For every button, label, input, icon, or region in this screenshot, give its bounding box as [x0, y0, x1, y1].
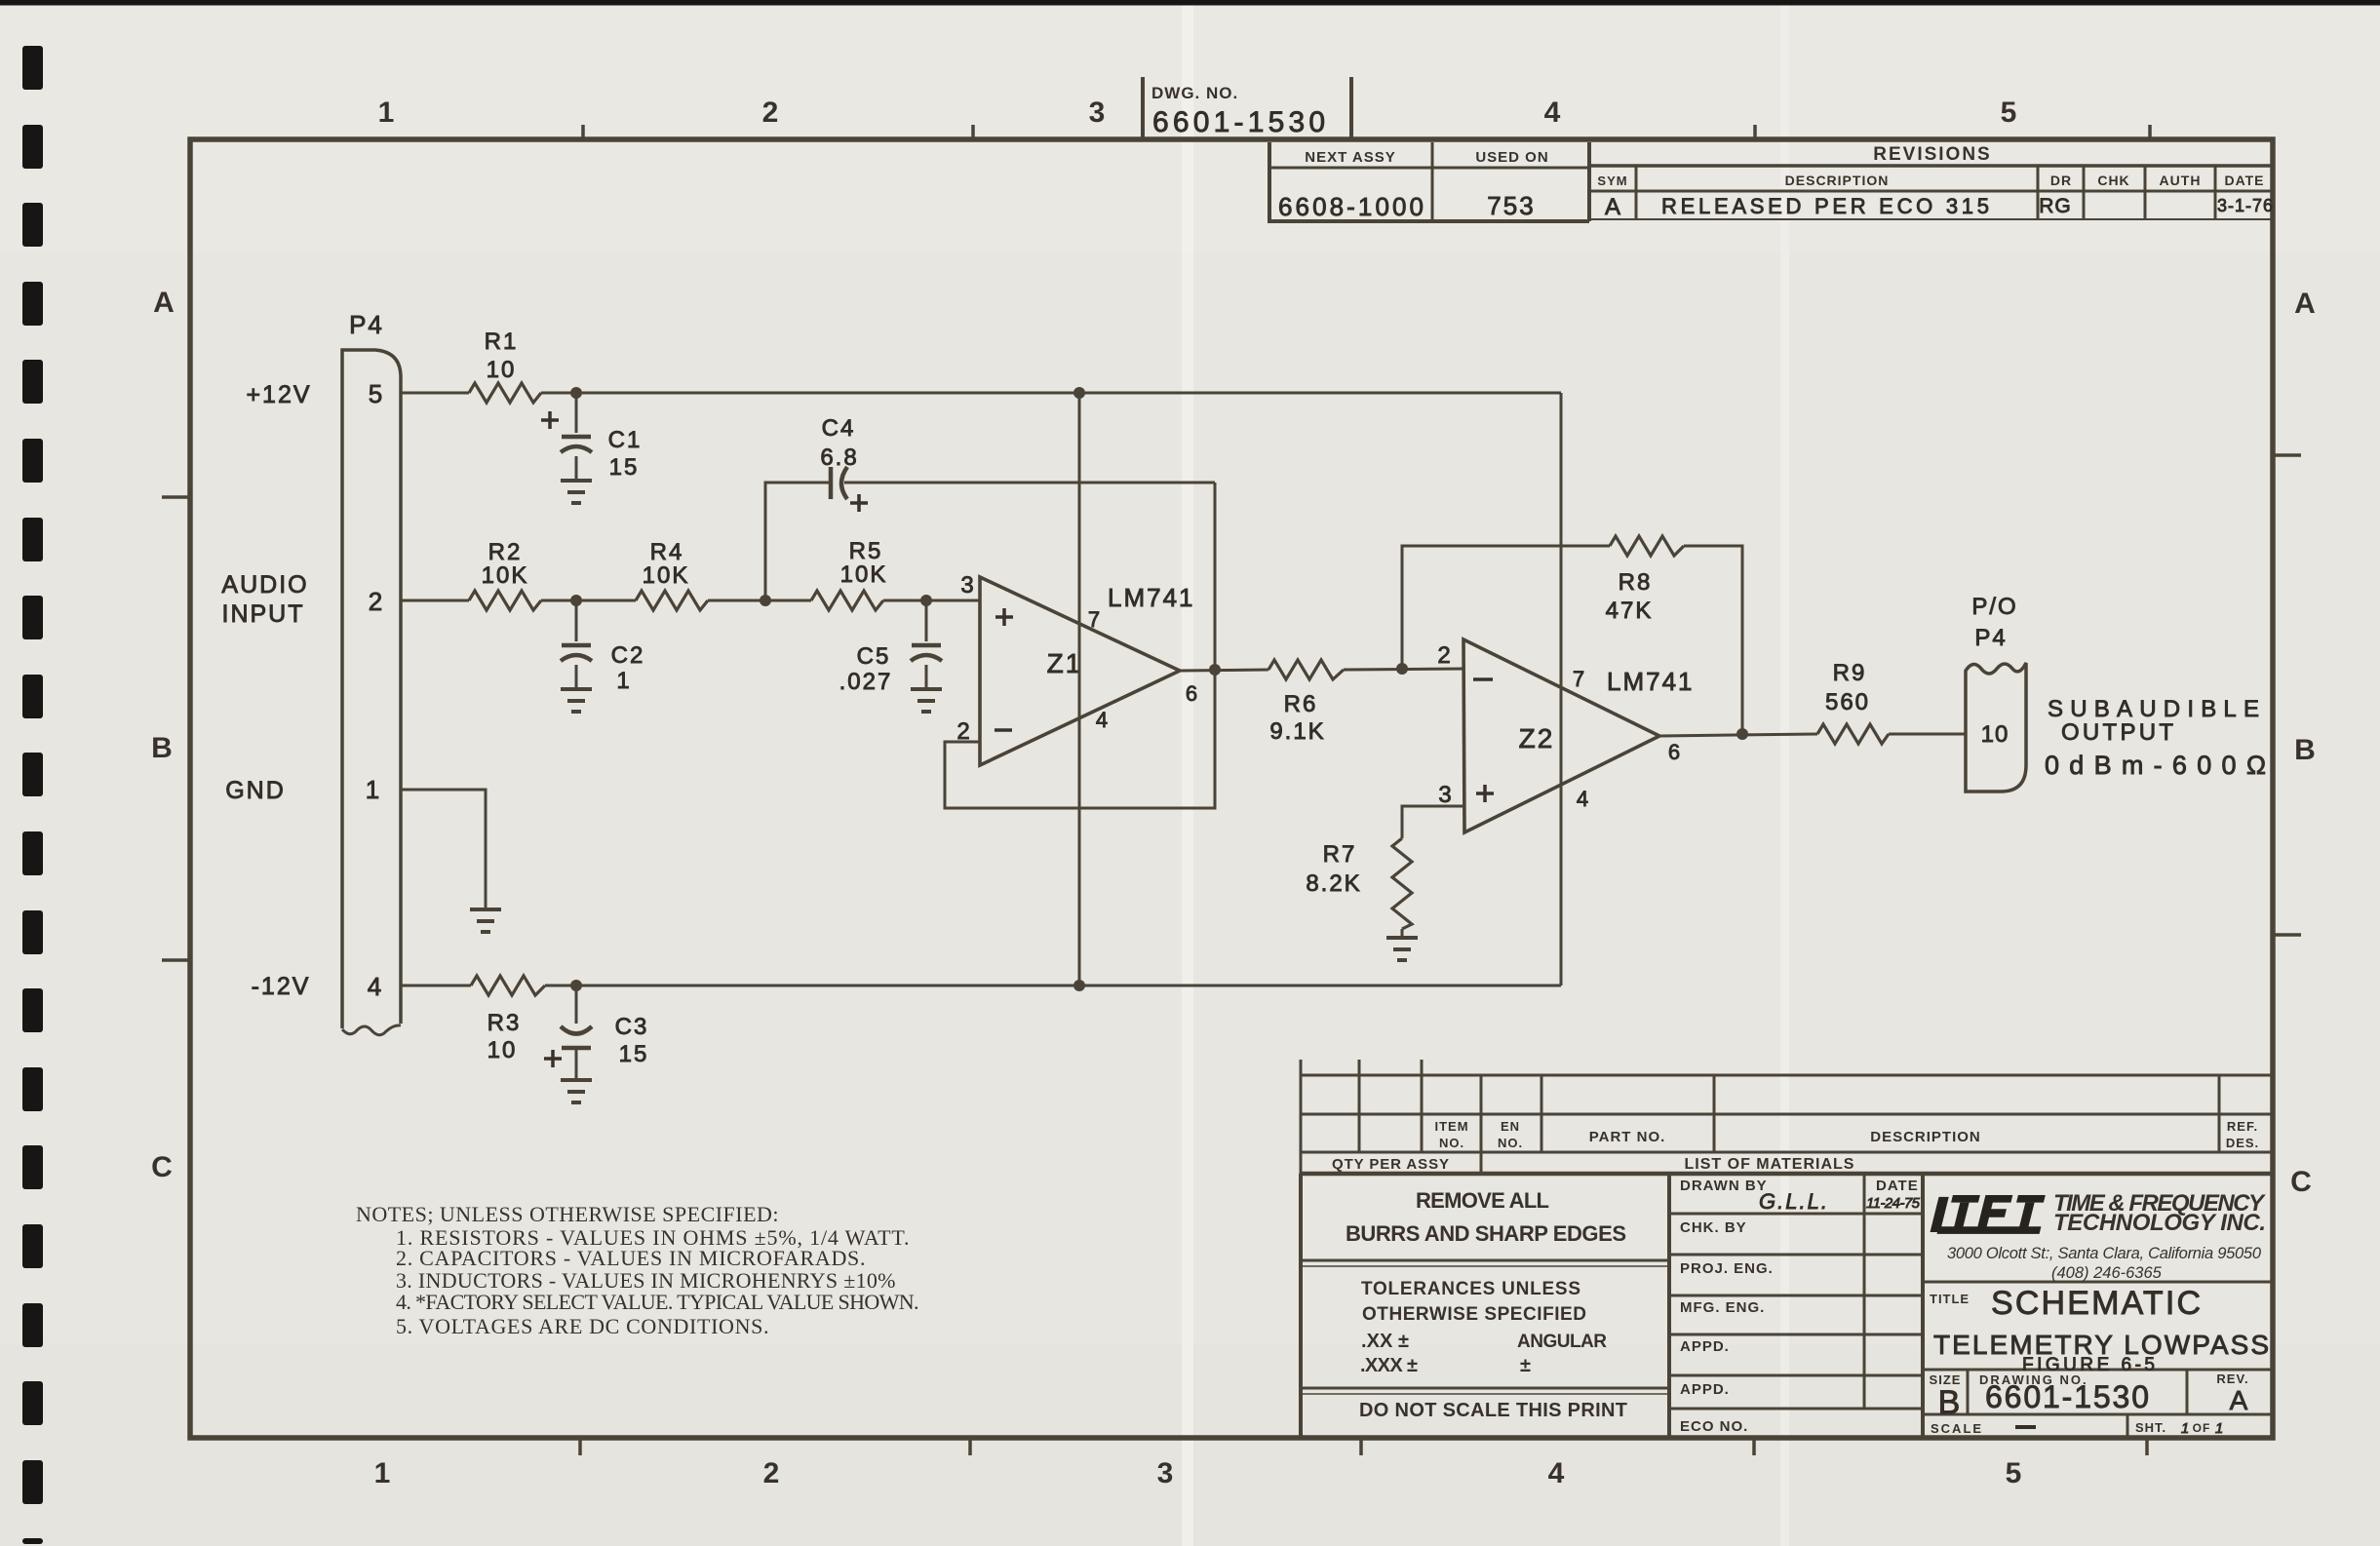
svg-text:4: 4 — [1548, 1457, 1565, 1489]
binder holes (left edge) — [22, 46, 43, 1544]
svg-text:4: 4 — [1096, 708, 1108, 732]
svg-text:753: 753 — [1487, 191, 1535, 220]
node +12V / C1 junction — [570, 387, 582, 399]
svg-text:DWG. NO.: DWG. NO. — [1151, 84, 1238, 102]
svg-text:Z1: Z1 — [1047, 648, 1083, 678]
svg-text:A: A — [1605, 194, 1620, 220]
svg-text:USED ON: USED ON — [1475, 149, 1548, 166]
svg-text:11-24-75: 11-24-75 — [1866, 1195, 1921, 1212]
svg-text:+12V: +12V — [246, 381, 311, 408]
DWG. NO. box — [1141, 77, 1145, 139]
svg-text:TECHNOLOGY INC.: TECHNOLOGY INC. — [2053, 1210, 2266, 1236]
svg-text:4: 4 — [1544, 97, 1561, 129]
svg-text:5: 5 — [369, 379, 382, 408]
svg-text:NOTES; UNLESS OTHERWISE SPECI: NOTES; UNLESS OTHERWISE SPECIFIED: — [356, 1202, 779, 1226]
wire supply right vertical — [1560, 393, 1563, 986]
svg-text:8.2K: 8.2K — [1306, 870, 1361, 897]
svg-text:DESCRIPTION: DESCRIPTION — [1785, 173, 1890, 188]
svg-text:C1: C1 — [608, 427, 643, 453]
svg-text:LM741: LM741 — [1108, 583, 1195, 612]
svg-text:C2: C2 — [611, 642, 645, 669]
resistor R1 — [469, 383, 541, 403]
wire audio input chain — [401, 599, 469, 602]
capacitor C3 — [575, 986, 578, 1024]
svg-text:4: 4 — [1577, 787, 1588, 811]
ground (pin 1) — [470, 908, 501, 911]
svg-text:SCALE: SCALE — [1931, 1421, 1983, 1436]
zone ticks top border — [581, 125, 585, 139]
svg-text:C4: C4 — [822, 415, 856, 442]
node Z1 output junction — [1209, 664, 1221, 676]
svg-text:MFG. ENG.: MFG. ENG. — [1680, 1299, 1765, 1316]
svg-text:.027: .027 — [839, 669, 893, 695]
scanner edge black strip (top) — [0, 0, 2380, 6]
svg-text:BURRS AND SHARP EDGES: BURRS AND SHARP EDGES — [1346, 1221, 1627, 1246]
svg-text:AUDIO: AUDIO — [221, 571, 308, 599]
node R4 / R5 / C4 junction — [760, 595, 771, 606]
drawing border frame — [190, 139, 2273, 1438]
svg-text:3-1-76: 3-1-76 — [2217, 196, 2274, 215]
svg-text:3: 3 — [1089, 97, 1106, 129]
svg-text:R6: R6 — [1284, 691, 1318, 717]
svg-text:SUBAUDIBLE: SUBAUDIBLE — [2048, 696, 2262, 722]
wire Z1 supply vertical — [1078, 393, 1081, 986]
ground (R7) — [1386, 936, 1418, 940]
svg-text:A: A — [2230, 1385, 2248, 1415]
svg-text:10: 10 — [487, 357, 517, 383]
Z2 + input symbol — [1476, 792, 1494, 795]
svg-text:P4: P4 — [349, 310, 384, 339]
svg-text:NO.: NO. — [1439, 1136, 1464, 1150]
svg-text:2: 2 — [763, 1457, 780, 1489]
svg-text:-12V: -12V — [252, 973, 311, 1000]
svg-text:SYM: SYM — [1597, 174, 1627, 188]
svg-text:DES.: DES. — [2226, 1136, 2259, 1150]
Z1 - input symbol — [995, 728, 1012, 732]
ground (C3) — [561, 1078, 592, 1082]
svg-text:LIST OF MATERIALS: LIST OF MATERIALS — [1685, 1156, 1855, 1173]
svg-text:APPD.: APPD. — [1680, 1381, 1730, 1398]
svg-text:1: 1 — [374, 1457, 391, 1489]
connector P/O P4 (output) — [1966, 663, 2026, 792]
wire Z1 feedback loop to pin 2 — [945, 483, 1215, 808]
Z1 + input symbol — [995, 615, 1013, 619]
svg-text:REV.: REV. — [2216, 1372, 2248, 1386]
svg-text:A: A — [2294, 288, 2316, 320]
svg-text:A: A — [153, 287, 175, 319]
wire Z1 output — [1180, 670, 1268, 671]
title block grid — [1301, 1174, 2273, 1438]
svg-text:1: 1 — [2181, 1420, 2189, 1437]
svg-text:1: 1 — [2215, 1420, 2223, 1437]
svg-text:AUTH: AUTH — [2160, 173, 2202, 188]
node R6 / R8 junction — [1396, 663, 1408, 675]
svg-text:5: 5 — [2001, 97, 2017, 129]
svg-text:GND: GND — [225, 777, 286, 804]
svg-text:R2: R2 — [488, 539, 523, 565]
svg-text:6601-1530: 6601-1530 — [1985, 1379, 2153, 1414]
svg-text:DRAWN BY: DRAWN BY — [1680, 1178, 1768, 1194]
svg-text:7: 7 — [1088, 607, 1100, 632]
resistor R2 — [469, 591, 541, 610]
svg-text:3: 3 — [1438, 782, 1451, 808]
capacitor C2 — [575, 600, 578, 641]
resistor R8 — [1610, 536, 1684, 556]
svg-text:NO.: NO. — [1498, 1136, 1523, 1150]
svg-text:SHT.: SHT. — [2135, 1420, 2166, 1435]
wire -12V rail — [401, 985, 471, 987]
svg-text:6608-1000: 6608-1000 — [1278, 192, 1424, 221]
svg-text:2. CAPACITORS - VALUES IN MIC: 2. CAPACITORS - VALUES IN MICROFARADS. — [396, 1246, 866, 1270]
svg-text:CHK: CHK — [2097, 173, 2129, 188]
svg-text:R5: R5 — [849, 538, 883, 564]
resistor R4 — [636, 591, 708, 610]
svg-text:2: 2 — [369, 587, 382, 616]
svg-text:6601-1530: 6601-1530 — [1152, 106, 1328, 138]
wire R8 to output — [1684, 546, 1742, 734]
capacitor C1 — [575, 393, 578, 433]
svg-text:DATE: DATE — [2224, 173, 2264, 188]
svg-text:1: 1 — [366, 775, 379, 804]
ground (C5) — [911, 687, 942, 691]
svg-text:10: 10 — [1981, 721, 2009, 748]
svg-text:PART NO.: PART NO. — [1589, 1129, 1666, 1145]
wire R6 to Z2 pin 2 — [1344, 669, 1464, 670]
svg-text:NEXT ASSY: NEXT ASSY — [1305, 149, 1395, 166]
svg-text:±: ± — [1520, 1355, 1532, 1376]
svg-text:INPUT: INPUT — [222, 600, 305, 628]
svg-text:4. *FACTORY SELECT VALUE. TY: 4. *FACTORY SELECT VALUE. TYPICAL VALUE … — [396, 1290, 919, 1314]
svg-text:R3: R3 — [488, 1010, 522, 1036]
svg-text:6: 6 — [1668, 740, 1680, 764]
svg-text:9.1K: 9.1K — [1269, 718, 1325, 745]
svg-text:1: 1 — [378, 97, 395, 129]
svg-text:10: 10 — [488, 1037, 518, 1063]
capacitor C4 — [829, 467, 834, 499]
node -12V / Z1 supply junction — [1073, 980, 1085, 991]
svg-text:TOLERANCES UNLESS: TOLERANCES UNLESS — [1361, 1279, 1582, 1299]
node R5 / C5 / pin3 junction — [920, 595, 932, 606]
svg-text:C: C — [2290, 1166, 2312, 1198]
svg-text:B: B — [1938, 1384, 1961, 1421]
svg-text:DATE: DATE — [1876, 1178, 1919, 1194]
svg-text:7: 7 — [1573, 667, 1584, 691]
ground (C2) — [561, 687, 592, 691]
wire R8 branch — [1402, 546, 1610, 669]
svg-text:2: 2 — [1437, 642, 1450, 669]
notes block — [356, 1202, 919, 1338]
svg-text:47K: 47K — [1606, 598, 1654, 624]
svg-text:REMOVE ALL: REMOVE ALL — [1416, 1188, 1550, 1213]
svg-text:REVISIONS: REVISIONS — [1873, 144, 1991, 165]
svg-text:OUTPUT: OUTPUT — [2061, 719, 2176, 746]
wire +12V rail — [401, 392, 469, 395]
svg-text:10K: 10K — [482, 562, 529, 589]
svg-text:Z2: Z2 — [1519, 723, 1555, 754]
svg-text:B: B — [2294, 734, 2316, 766]
svg-text:C: C — [151, 1151, 173, 1183]
svg-text:OF: OF — [2193, 1421, 2211, 1435]
svg-text:P/O: P/O — [1971, 594, 2017, 620]
zone ticks left border — [162, 495, 188, 499]
resistor R7 — [1392, 838, 1412, 929]
svg-text:LM741: LM741 — [1607, 667, 1695, 696]
REVISIONS table — [1589, 142, 2275, 221]
svg-text:.XX ±: .XX ± — [1361, 1331, 1410, 1352]
svg-text:R1: R1 — [485, 329, 519, 355]
svg-text:6.8: 6.8 — [820, 444, 858, 471]
node -12V / C3 junction — [570, 980, 582, 991]
node output / R8 junction — [1736, 728, 1748, 740]
svg-text:.XXX ±: .XXX ± — [1360, 1355, 1419, 1376]
svg-text:R9: R9 — [1833, 660, 1867, 686]
wire Z2 pin 3 to R7 — [1402, 806, 1464, 838]
svg-text:DR: DR — [2050, 173, 2072, 188]
resistor R3 — [471, 976, 545, 995]
op-amp Z2 (LM741) — [1463, 639, 1659, 832]
svg-text:PROJ. ENG.: PROJ. ENG. — [1680, 1260, 1774, 1277]
resistor R6 — [1268, 660, 1344, 679]
connector P4 (input) — [342, 350, 401, 1028]
svg-text:5: 5 — [2006, 1457, 2022, 1489]
svg-text:G.L.L.: G.L.L. — [1759, 1189, 1829, 1214]
svg-text:3: 3 — [1157, 1457, 1174, 1489]
svg-text:4: 4 — [368, 972, 381, 1001]
svg-text:6: 6 — [1186, 681, 1197, 706]
wire C4 feedback riser — [765, 483, 831, 600]
svg-text:R8: R8 — [1619, 569, 1653, 596]
svg-text:RELEASED PER ECO 315: RELEASED PER ECO 315 — [1661, 194, 1991, 218]
wire Z2 output — [1659, 734, 1817, 736]
svg-text:B: B — [151, 732, 173, 764]
svg-text:CHK. BY: CHK. BY — [1680, 1219, 1747, 1236]
Z2 - input symbol — [1473, 677, 1493, 681]
svg-text:R7: R7 — [1323, 841, 1357, 868]
capacitor C5 — [925, 600, 928, 641]
svg-text:P4: P4 — [1974, 625, 2007, 651]
svg-text:15: 15 — [609, 454, 640, 481]
resistor R5 — [811, 591, 883, 610]
resistor R9 — [1817, 724, 1889, 744]
svg-text:15: 15 — [619, 1041, 649, 1067]
zone ticks bottom border — [578, 1440, 582, 1455]
ground (C1) — [561, 479, 592, 483]
svg-text:ANGULAR: ANGULAR — [1517, 1332, 1610, 1352]
svg-text:ITEM: ITEM — [1434, 1119, 1468, 1134]
svg-text:0dBm-600Ω: 0dBm-600Ω — [2045, 751, 2268, 780]
svg-text:560: 560 — [1825, 689, 1870, 715]
svg-text:DESCRIPTION: DESCRIPTION — [1870, 1129, 1981, 1145]
wire GND pin 1 — [401, 790, 486, 909]
svg-text:3000 Olcott St:, Santa Clara,: 3000 Olcott St:, Santa Clara, California… — [1947, 1245, 2262, 1262]
svg-text:2: 2 — [762, 97, 779, 129]
svg-text:(408) 246-6365: (408) 246-6365 — [2051, 1264, 2163, 1282]
node R2 / C2 junction — [570, 595, 582, 606]
svg-text:10K: 10K — [840, 561, 888, 588]
zone ticks right border — [2275, 453, 2301, 457]
svg-text:3: 3 — [960, 572, 973, 599]
svg-text:C5: C5 — [857, 643, 891, 670]
svg-text:R4: R4 — [650, 539, 684, 565]
svg-text:ECO NO.: ECO NO. — [1680, 1418, 1748, 1435]
svg-text:DO NOT SCALE THIS PRINT: DO NOT SCALE THIS PRINT — [1359, 1400, 1629, 1421]
svg-text:C3: C3 — [615, 1014, 649, 1040]
svg-text:REF.: REF. — [2227, 1119, 2258, 1134]
TFT company logo — [1930, 1195, 2048, 1234]
op-amp Z1 (LM741) — [980, 577, 1180, 765]
svg-text:1: 1 — [616, 668, 631, 694]
list of materials table — [1301, 1060, 2273, 1174]
node +12V / Z1 supply junction — [1073, 387, 1085, 399]
svg-text:RG: RG — [2039, 195, 2072, 217]
svg-text:10K: 10K — [643, 562, 690, 589]
svg-text:OTHERWISE SPECIFIED: OTHERWISE SPECIFIED — [1362, 1304, 1588, 1325]
svg-text:QTY PER ASSY: QTY PER ASSY — [1332, 1156, 1450, 1173]
svg-text:SCHEMATIC: SCHEMATIC — [1991, 1285, 2205, 1322]
NEXT ASSY / USED ON table — [1269, 142, 1589, 221]
svg-text:APPD.: APPD. — [1680, 1338, 1730, 1355]
svg-text:EN: EN — [1501, 1119, 1520, 1134]
svg-text:TITLE: TITLE — [1930, 1292, 1970, 1306]
svg-text:5. VOLTAGES ARE DC CONDITIONS: 5. VOLTAGES ARE DC CONDITIONS. — [396, 1314, 769, 1338]
